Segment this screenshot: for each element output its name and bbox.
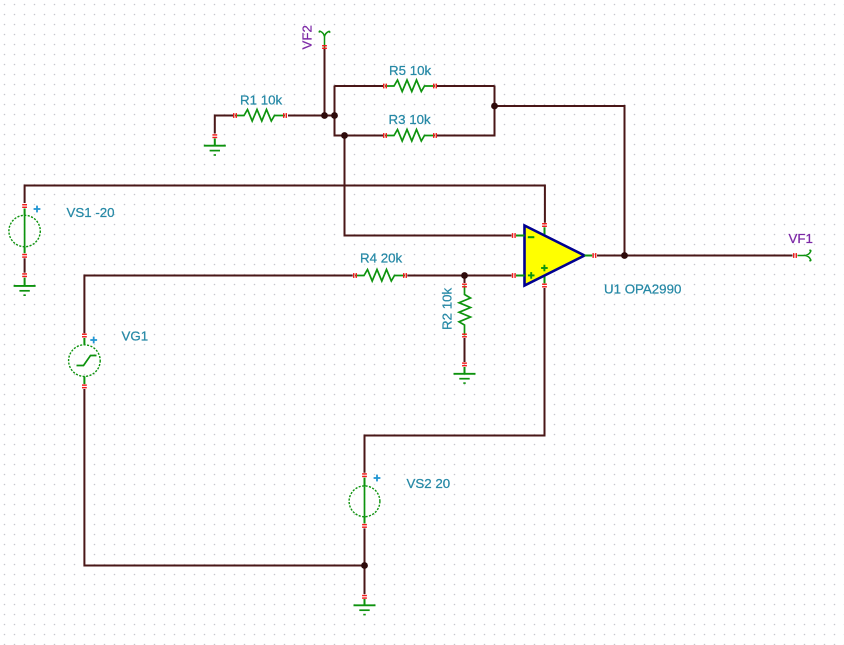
svg-text:R1 10k: R1 10k (240, 93, 282, 108)
svg-text:R3 10k: R3 10k (389, 112, 431, 127)
svg-text:VS2 20: VS2 20 (407, 476, 451, 491)
svg-text:R4 20k: R4 20k (360, 251, 402, 266)
svg-text:VG1: VG1 (122, 329, 149, 344)
svg-text:R2 10k: R2 10k (440, 288, 455, 330)
svg-text:VF1: VF1 (789, 231, 813, 246)
svg-text:U1 OPA2990: U1 OPA2990 (604, 282, 681, 297)
svg-text:VF2: VF2 (300, 25, 315, 49)
svg-text:VS1 -20: VS1 -20 (67, 205, 115, 220)
svg-text:R5 10k: R5 10k (389, 63, 431, 78)
